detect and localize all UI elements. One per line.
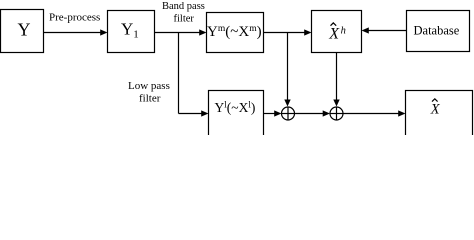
box Xhat	[406, 91, 473, 137]
hat over Xhat	[432, 99, 438, 102]
svg-text:Band pass: Band pass	[162, 1, 205, 12]
wire Yl to adder 1	[264, 113, 276, 115]
svg-text:Y: Y	[18, 20, 31, 40]
hat over Xh	[331, 23, 337, 26]
svg-text:X: X	[430, 102, 441, 118]
arrowhead into Xh box	[304, 29, 311, 35]
label Low pass filter	[128, 80, 170, 105]
wire Xh bottom drop to adder 2	[336, 53, 338, 101]
wire Database to Xh	[369, 30, 407, 32]
box Y1	[108, 11, 155, 53]
box Ym	[207, 13, 264, 53]
wire Y1 to band pass junction	[155, 32, 200, 34]
svg-text:Low pass: Low pass	[128, 80, 170, 92]
arrowhead into adder 2 left	[323, 110, 330, 116]
box Yl	[209, 91, 264, 137]
svg-text:filter: filter	[174, 14, 195, 25]
wire low pass vertical drop	[178, 33, 180, 114]
arrowhead into Y1	[100, 29, 107, 35]
arrowhead into adder 1 top	[284, 100, 290, 107]
arrowhead into Ym box	[199, 29, 206, 35]
label Band pass filter	[162, 1, 205, 25]
wire adder 1 to adder 2	[295, 113, 325, 115]
arrowhead into adder 1 left	[274, 110, 281, 116]
svg-text:Database: Database	[414, 24, 460, 38]
arrowhead into Xh right side	[362, 27, 369, 33]
wire adder 2 to Xhat box	[343, 113, 399, 115]
svg-text:Pre-process: Pre-process	[49, 12, 100, 24]
svg-text:filter: filter	[139, 93, 161, 105]
box Xh	[312, 11, 362, 53]
wire Ym to Xh	[264, 32, 305, 34]
box Database	[407, 11, 470, 52]
wire junction drop to adder 1	[287, 33, 289, 101]
wire Y to Y1	[44, 32, 101, 34]
wire low pass horizontal into Yl	[179, 113, 202, 115]
arrowhead into adder 2 top	[333, 100, 339, 107]
label Pre-process	[49, 12, 100, 24]
arrowhead into Xhat box	[398, 110, 405, 116]
box Y	[1, 10, 44, 53]
adder 1 circle-plus	[282, 107, 295, 120]
adder 2 circle-plus	[330, 107, 343, 120]
arrowhead into Yl box	[201, 110, 208, 116]
